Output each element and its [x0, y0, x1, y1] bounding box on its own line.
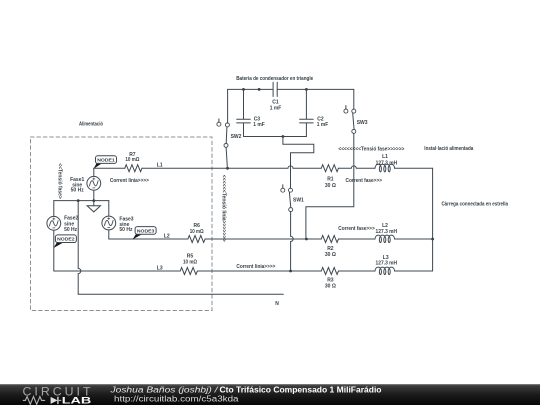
logo resistor zigzag [23, 397, 45, 405]
capacitor C3 [237, 89, 251, 136]
svg-text:L1: L1 [382, 154, 388, 160]
svg-text:30 Ω: 30 Ω [325, 183, 336, 189]
capacitor C1 [273, 82, 277, 96]
svg-text:SW2: SW2 [231, 134, 242, 140]
svg-text:SW3: SW3 [357, 120, 368, 126]
wire capacitor bank top [228, 88, 354, 90]
switch SW3 [306, 89, 356, 237]
svg-text:<<<<<<<<Tensió fase>>>>>>: <<<<<<<<Tensió fase>>>>>> [338, 147, 404, 153]
junction dot C3 top [242, 88, 245, 91]
svg-text:Corrent fase>>>: Corrent fase>>> [338, 226, 375, 232]
resistor R6 [188, 236, 205, 243]
svg-text:50 Hz: 50 Hz [71, 187, 85, 193]
svg-text:127.3 mH: 127.3 mH [376, 229, 398, 235]
wire L3 to load bus [395, 270, 433, 272]
resistor R2 [321, 236, 338, 243]
svg-text:50 Hz: 50 Hz [119, 227, 133, 233]
svg-text:N: N [275, 301, 279, 307]
wire L3 line continued [197, 270, 321, 272]
wire L2 to load bus [395, 238, 433, 240]
wire after R1 with hop over SW3 column [339, 166, 376, 168]
svg-text:Corrent fase>>>: Corrent fase>>> [346, 178, 383, 184]
svg-text:30 Ω: 30 Ω [325, 252, 336, 258]
wire neutral vertical with hop over L3 [78, 201, 81, 295]
svg-text:Joshua Baños (joshbj) /: Joshua Baños (joshbj) / [109, 386, 218, 395]
junction dot top wire mid [258, 88, 261, 91]
inductor L3 [375, 267, 395, 275]
svg-text:NODE2: NODE2 [57, 237, 75, 243]
svg-text:1 mF: 1 mF [270, 106, 282, 112]
wire L1 line continued with hops [142, 166, 321, 168]
svg-text:127.3 mH: 127.3 mH [376, 160, 398, 166]
junction dot C2 top [305, 88, 308, 91]
svg-text:NODE1: NODE1 [97, 158, 115, 164]
logo diode [51, 397, 58, 404]
inductor L2 [375, 235, 395, 243]
svg-text:L1: L1 [157, 163, 163, 169]
junction dot SW2 to L1 [226, 167, 229, 170]
wire L1 line [94, 167, 125, 169]
flag NODE1 [94, 156, 117, 169]
resistor R7 [125, 165, 142, 172]
svg-text:L3: L3 [157, 266, 163, 272]
wire L2 line continued [205, 238, 321, 240]
svg-text:Corrent linia>>>>: Corrent linia>>>> [236, 264, 275, 270]
svg-text:Instal·lació alimentada: Instal·lació alimentada [424, 146, 473, 152]
switch SW2 [217, 89, 230, 168]
enclosure Alimentació dashed box [31, 137, 213, 311]
wire after R3 [339, 270, 376, 272]
svg-text:1 mF: 1 mF [317, 122, 329, 128]
capacitor C2 [300, 89, 314, 136]
wire staircase cap bottom to SW1 [283, 137, 314, 189]
svg-text:Bateria de condensador en tria: Bateria de condensador en triangle [236, 76, 313, 82]
svg-text:Cto Trifásico Compensado 1 Mil: Cto Trifásico Compensado 1 MiliFarádio [220, 386, 382, 395]
svg-text:10 mΩ: 10 mΩ [183, 260, 197, 266]
resistor R1 [321, 165, 338, 172]
junction dot neutral tap [77, 199, 80, 202]
junction dot Fase1 negative [92, 199, 95, 202]
svg-text:10 mΩ: 10 mΩ [125, 157, 139, 163]
inductor L1 [375, 164, 395, 172]
wire load star bus vertical [432, 168, 434, 271]
svg-text:SW1: SW1 [293, 198, 304, 204]
svg-text:<<Tensió fase>: <<Tensió fase> [56, 163, 62, 199]
footer bar [0, 384, 540, 405]
junction dot SW3 column to L2 [305, 238, 308, 241]
resistor R3 [321, 268, 338, 275]
svg-text:127.3 mH: 127.3 mH [376, 260, 398, 266]
wire neutral N horizontal [78, 293, 283, 295]
wire L3 line from Fase2 [54, 270, 180, 272]
svg-text:Fase2: Fase2 [64, 216, 78, 222]
flag NODE2 [54, 235, 77, 248]
wire after R2 [339, 238, 376, 240]
svg-text:LAB: LAB [62, 396, 92, 405]
junction dot SW1 column to L3 [289, 270, 292, 273]
wire capacitor bank bottom [244, 136, 307, 138]
svg-text:<<<<<<Tensió linia>>>>>>>: <<<<<<Tensió linia>>>>>>> [221, 175, 227, 242]
resistor R5 [180, 268, 197, 275]
svg-text:50 Hz: 50 Hz [64, 227, 78, 233]
junction dot cap bank bottom [282, 135, 285, 138]
switch SW1 [281, 185, 293, 270]
ground [87, 201, 100, 212]
junction dot load bus / branch 2 [431, 238, 434, 241]
svg-text:L2: L2 [164, 233, 170, 239]
svg-text:10 mΩ: 10 mΩ [190, 229, 204, 235]
svg-text:Càrrega connectada en estrella: Càrrega connectada en estrella [441, 202, 508, 208]
voltage source Fase1 [87, 168, 101, 200]
wire L1 to load bus [395, 167, 433, 169]
voltage source Fase3 [102, 201, 116, 239]
flag NODE3 [133, 227, 157, 240]
node source star bus wire [54, 200, 109, 202]
svg-text:30 Ω: 30 Ω [325, 283, 336, 289]
svg-text:R1: R1 [327, 177, 334, 183]
svg-text:Alimentació: Alimentació [79, 122, 103, 128]
svg-text:NODE3: NODE3 [137, 228, 155, 234]
svg-text:1 mF: 1 mF [253, 122, 264, 128]
svg-text:http://circuitlab.com/c5a3kda: http://circuitlab.com/c5a3kda [114, 394, 239, 403]
voltage source Fase2 [47, 201, 61, 271]
svg-text:Corrent linia>>>>: Corrent linia>>>> [110, 178, 149, 184]
wire L2 line from Fase3 [109, 238, 188, 240]
